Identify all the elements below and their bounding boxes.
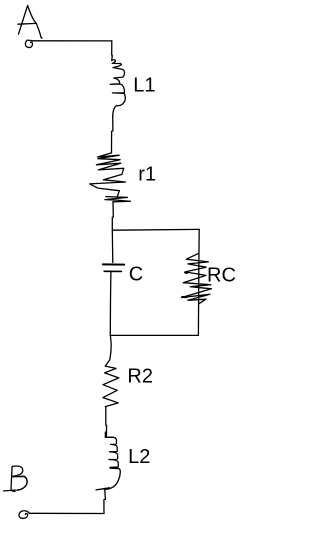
- right branch vertical wire: [197, 229, 200, 335]
- terminal B: [19, 511, 29, 519]
- terminal A: [25, 40, 32, 47]
- svg-text:L1: L1: [133, 75, 155, 97]
- capacitor C top plate: [103, 263, 124, 265]
- svg-text:R2: R2: [127, 365, 153, 387]
- resistor R2: [103, 360, 119, 407]
- resistor RC zigzag: [182, 253, 212, 304]
- inductor L1: [110, 60, 125, 116]
- wire down into L1: [111, 41, 114, 61]
- svg-text:r1: r1: [138, 164, 156, 186]
- blob on RC lower: [182, 296, 186, 298]
- wire junction down to capacitor: [111, 230, 114, 262]
- wire L2 to bottom corner: [104, 489, 106, 514]
- bottom wire to terminal B: [29, 512, 104, 514]
- node A letter: [18, 6, 42, 39]
- svg-text:C: C: [129, 263, 143, 285]
- node B letter: [4, 466, 28, 491]
- wire R2 to L2: [105, 407, 108, 438]
- resistor r1: [90, 153, 131, 202]
- L2 thick stroke: [110, 467, 118, 469]
- wire L1 to r1: [112, 116, 113, 153]
- bottom wire of parallel box: [110, 334, 198, 336]
- L2 crossing tick: [96, 488, 110, 490]
- wire r1 to junction: [112, 202, 113, 231]
- inductor L2: [104, 432, 121, 489]
- svg-text:L2: L2: [128, 446, 150, 468]
- node: top wire of parallel box: [112, 228, 199, 231]
- svg-text:RC: RC: [207, 265, 236, 287]
- wire capacitor to bottom wire: [109, 272, 112, 336]
- capacitor C bottom plate: [104, 270, 121, 272]
- wire A to top corner: [33, 40, 112, 42]
- wire junction down to R2: [110, 335, 111, 359]
- blob on RC: [185, 271, 187, 274]
